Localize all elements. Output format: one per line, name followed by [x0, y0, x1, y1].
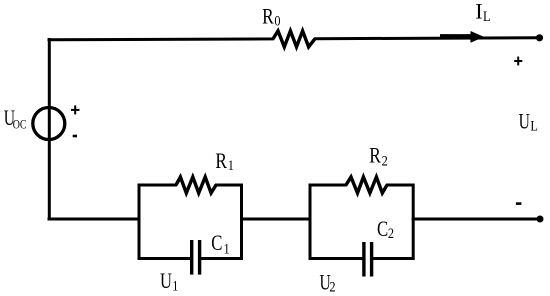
svg-text:R: R	[262, 4, 274, 29]
svg-text:2: 2	[388, 225, 394, 241]
svg-text:U: U	[160, 270, 172, 294]
svg-text:L: L	[483, 8, 491, 24]
svg-text:I: I	[475, 0, 482, 24]
svg-text:2: 2	[382, 152, 388, 168]
svg-text:R: R	[369, 144, 381, 169]
svg-text:R: R	[215, 149, 227, 174]
svg-text:2: 2	[329, 279, 335, 295]
svg-text:1: 1	[228, 157, 234, 173]
svg-text:C: C	[211, 231, 222, 256]
svg-text:1: 1	[172, 277, 178, 293]
svg-text:C: C	[377, 217, 388, 242]
svg-text:OC: OC	[13, 118, 27, 132]
svg-text:1: 1	[224, 240, 230, 256]
svg-text:U: U	[519, 110, 530, 134]
svg-text:0: 0	[274, 13, 280, 29]
svg-text:L: L	[530, 118, 538, 134]
